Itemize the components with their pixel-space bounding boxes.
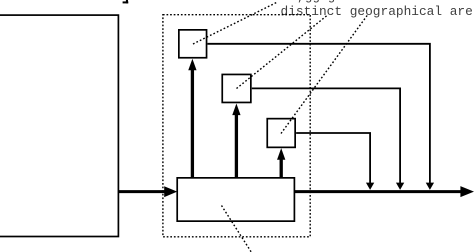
callout line to square S1: [193, 2, 278, 44]
square S3: [267, 119, 295, 148]
up arrow from wide box to S2: [235, 115, 238, 177]
wire from S2 right edge: [252, 88, 400, 183]
svg-text:distinct geographical are: distinct geographical are: [281, 4, 473, 19]
dotted region boundary: [163, 15, 310, 237]
wire from S1 right edge: [208, 44, 430, 184]
callout line to square S2: [237, 16, 328, 89]
square S1: [179, 30, 207, 58]
thick arrow from left box into wide box: [119, 190, 166, 193]
square S2: [222, 74, 251, 102]
callout line to square S3: [281, 15, 368, 134]
thick arrow out of wide box to right edge: [295, 190, 461, 193]
wire from S3 right edge: [296, 133, 370, 184]
big left box (clients), cropped at left edge: [0, 15, 118, 236]
up arrow from wide box to S1: [191, 70, 194, 178]
arrowhead down at x=400: [396, 183, 404, 190]
up arrow from wide box to S3: [280, 159, 283, 177]
arrowhead down at x=430: [426, 183, 434, 190]
label fragment digit 1 (cropped text above): [123, 0, 129, 3]
arrowhead down at x=370: [366, 183, 374, 190]
callout line from bottom box (cropped below): [222, 206, 253, 252]
bottom wide box (distributor): [177, 178, 294, 221]
